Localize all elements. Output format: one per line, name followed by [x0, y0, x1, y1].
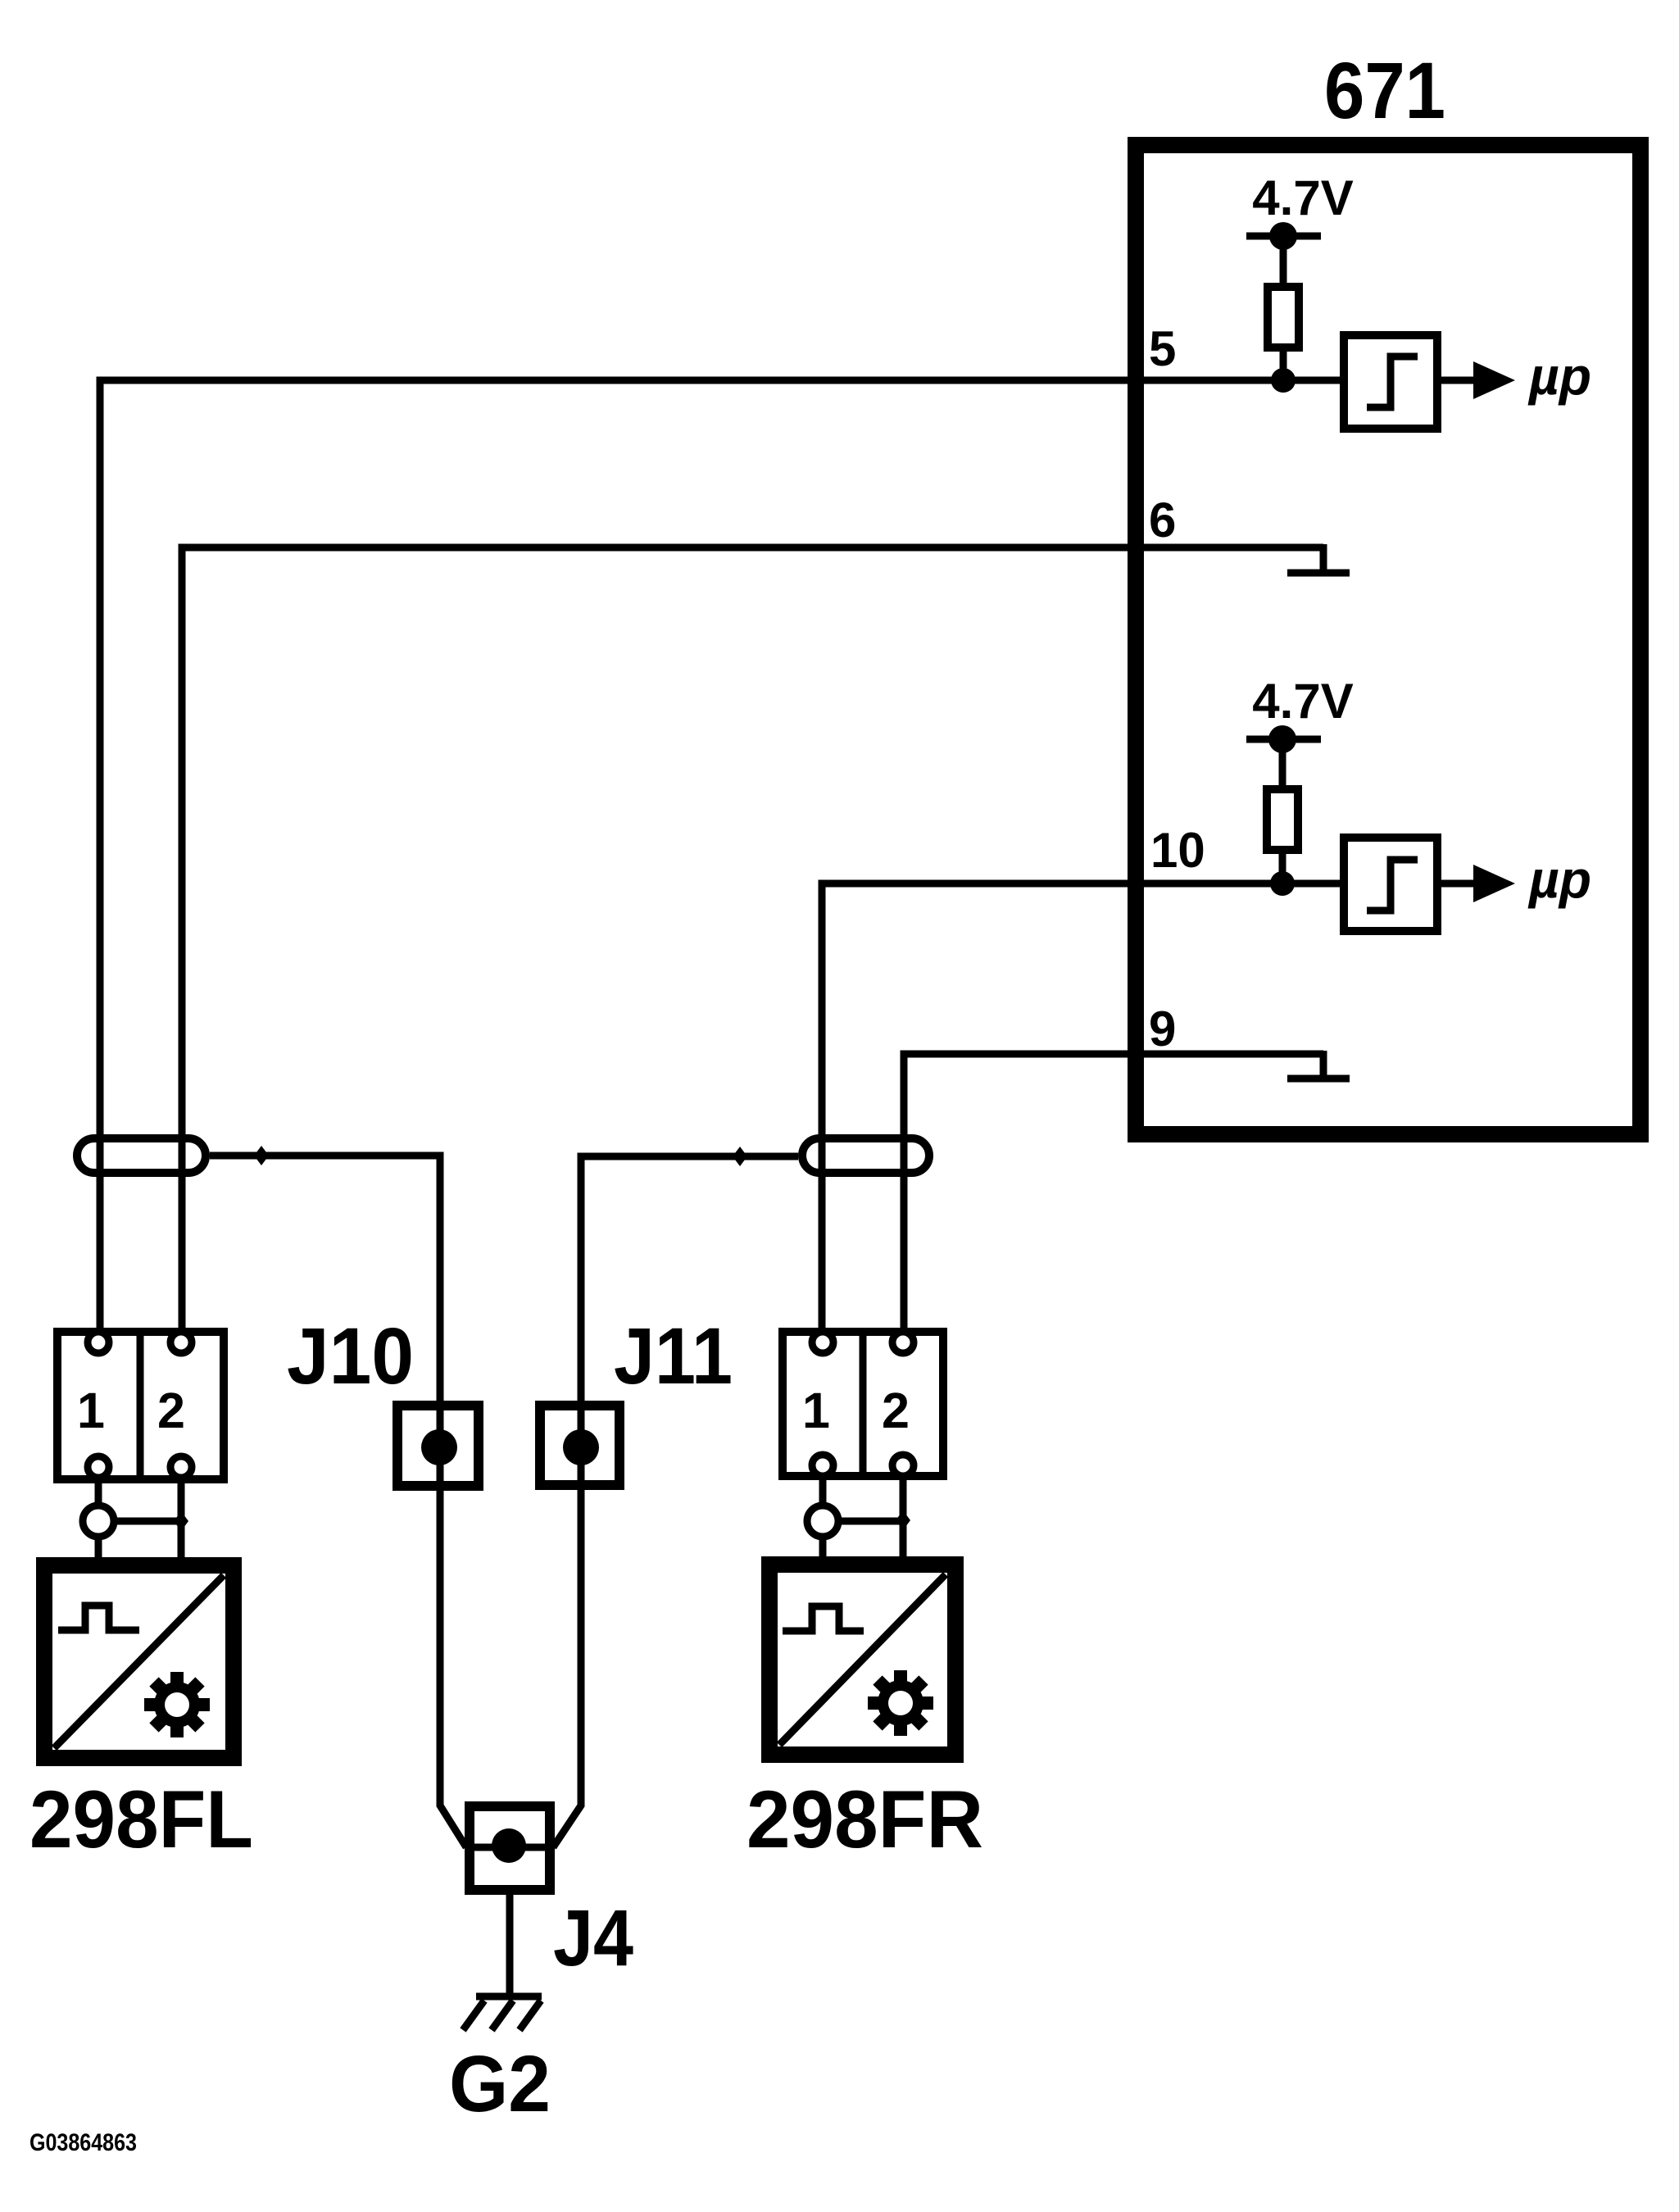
svg-text:298FL: 298FL: [29, 1774, 253, 1865]
sensor box 298FL: [44, 1565, 234, 1758]
connector divider FR: [860, 1332, 867, 1476]
wire FL terminal link: [98, 1518, 181, 1525]
diamond junction left drain: [254, 1146, 269, 1165]
svg-text:J4: J4: [553, 1893, 633, 1983]
svg-text:6: 6: [1149, 493, 1176, 547]
svg-text:5: 5: [1149, 321, 1176, 376]
internal ground pin 6: [1320, 544, 1327, 573]
wire FR terminal link: [823, 1518, 903, 1525]
pin circle FR 2 top: [892, 1332, 914, 1353]
wire FR pin1 to sensor: [819, 1478, 827, 1565]
svg-text:1: 1: [802, 1383, 830, 1438]
splice box J4: [470, 1806, 550, 1890]
svg-text:2: 2: [882, 1383, 910, 1438]
pin circle FL 1 top: [88, 1332, 109, 1353]
wire FL pin2 to sensor: [178, 1480, 185, 1565]
wire pin 10 net: [822, 883, 1340, 1342]
connector divider FL: [137, 1332, 144, 1479]
ECU box 671: [1136, 145, 1640, 1134]
ground G2 hatch 3: [520, 2001, 541, 2030]
pin circle FL 2 top: [170, 1332, 192, 1353]
svg-text:1: 1: [77, 1383, 105, 1438]
resistor R lower: [1267, 789, 1298, 850]
wire FR pin2 to sensor: [900, 1478, 907, 1565]
pin circle FL 2 bottom: [170, 1456, 192, 1478]
resistor R upper: [1268, 287, 1299, 347]
supply dot lower: [1268, 725, 1296, 753]
wire pin 5 net: [100, 380, 1340, 1342]
sensor FL pulse symbol: [58, 1606, 139, 1630]
wire supply to resistor upper: [1280, 236, 1287, 287]
wire Schmitt to arrow upper: [1437, 377, 1475, 384]
wire Schmitt to arrow lower: [1437, 880, 1475, 888]
diamond junction right drain: [733, 1147, 747, 1166]
svg-text:J11: J11: [614, 1311, 733, 1401]
splice dot J10: [421, 1429, 457, 1465]
svg-text:4.7V: 4.7V: [1252, 170, 1353, 225]
arrow lower: [1473, 865, 1515, 902]
splice box J10: [397, 1406, 479, 1486]
shield oval right: [802, 1138, 929, 1173]
ground bar pin 9: [1287, 1075, 1350, 1083]
sensor FR pulse symbol: [783, 1606, 864, 1631]
step symbol upper: [1367, 357, 1418, 407]
J4 mid wire: [468, 1844, 551, 1851]
svg-text:µp: µp: [1527, 850, 1591, 909]
4.7V supply bar lower: [1246, 736, 1321, 743]
shield oval left: [77, 1138, 206, 1173]
wire pin 6 net: [182, 547, 1323, 1342]
splice box J11: [540, 1406, 619, 1485]
Schmitt trigger box lower: [1344, 838, 1437, 931]
arrow upper: [1473, 361, 1515, 399]
sensor FL diagonal: [54, 1575, 224, 1748]
svg-text:4.7V: 4.7V: [1252, 674, 1353, 729]
step symbol lower: [1367, 860, 1418, 911]
svg-text:G03864863: G03864863: [29, 2129, 137, 2156]
svg-text:2: 2: [157, 1383, 185, 1438]
pin circle FR 1 bottom: [812, 1455, 833, 1476]
svg-text:9: 9: [1149, 1002, 1176, 1056]
ground bar pin 6: [1287, 570, 1350, 577]
wire pin 9 net: [904, 1054, 1323, 1342]
ground G2 hatch 2: [492, 2001, 513, 2030]
junction dot node 10: [1270, 871, 1295, 896]
splice dot J4: [492, 1828, 526, 1863]
Schmitt trigger box upper: [1344, 335, 1437, 429]
pin circle FL 1 bottom: [88, 1456, 109, 1478]
4.7V supply bar upper: [1246, 233, 1321, 240]
wire FL pin1 to sensor: [95, 1480, 102, 1565]
terminal circle FR: [807, 1506, 838, 1537]
diamond FL link: [174, 1511, 188, 1531]
ground G2 bar: [476, 1993, 542, 2001]
sensor FR gear: [868, 1670, 933, 1736]
sensor box 298FR: [769, 1565, 955, 1755]
junction dot node 5: [1271, 368, 1296, 393]
svg-text:J10: J10: [287, 1311, 414, 1401]
svg-text:G2: G2: [449, 2039, 551, 2128]
pin circle FR 2 bottom: [892, 1455, 914, 1476]
wire resistor to node 10: [1279, 850, 1286, 883]
diamond FR link: [896, 1510, 910, 1530]
svg-text:µp: µp: [1527, 347, 1591, 406]
terminal circle FL: [83, 1506, 114, 1537]
connector box 298FL: [57, 1332, 224, 1479]
wire J4 to ground: [506, 1890, 514, 1995]
svg-text:671: 671: [1324, 46, 1445, 135]
wire supply to resistor lower: [1279, 739, 1286, 789]
supply dot upper: [1269, 222, 1297, 250]
svg-text:10: 10: [1150, 823, 1205, 878]
connector box 298FR: [783, 1332, 943, 1476]
splice dot J11: [563, 1429, 599, 1465]
pin circle FR 1 top: [812, 1332, 833, 1353]
internal ground pin 9: [1320, 1051, 1327, 1079]
drain wire left shield to J10 to J4: [210, 1156, 466, 1847]
sensor FR diagonal: [779, 1574, 946, 1745]
wire resistor to node 5: [1280, 347, 1287, 380]
ground G2 hatch 1: [463, 2001, 484, 2030]
svg-text:298FR: 298FR: [746, 1774, 983, 1865]
sensor FL gear: [144, 1672, 210, 1737]
drain wire right shield to J11 to J4: [553, 1156, 798, 1847]
